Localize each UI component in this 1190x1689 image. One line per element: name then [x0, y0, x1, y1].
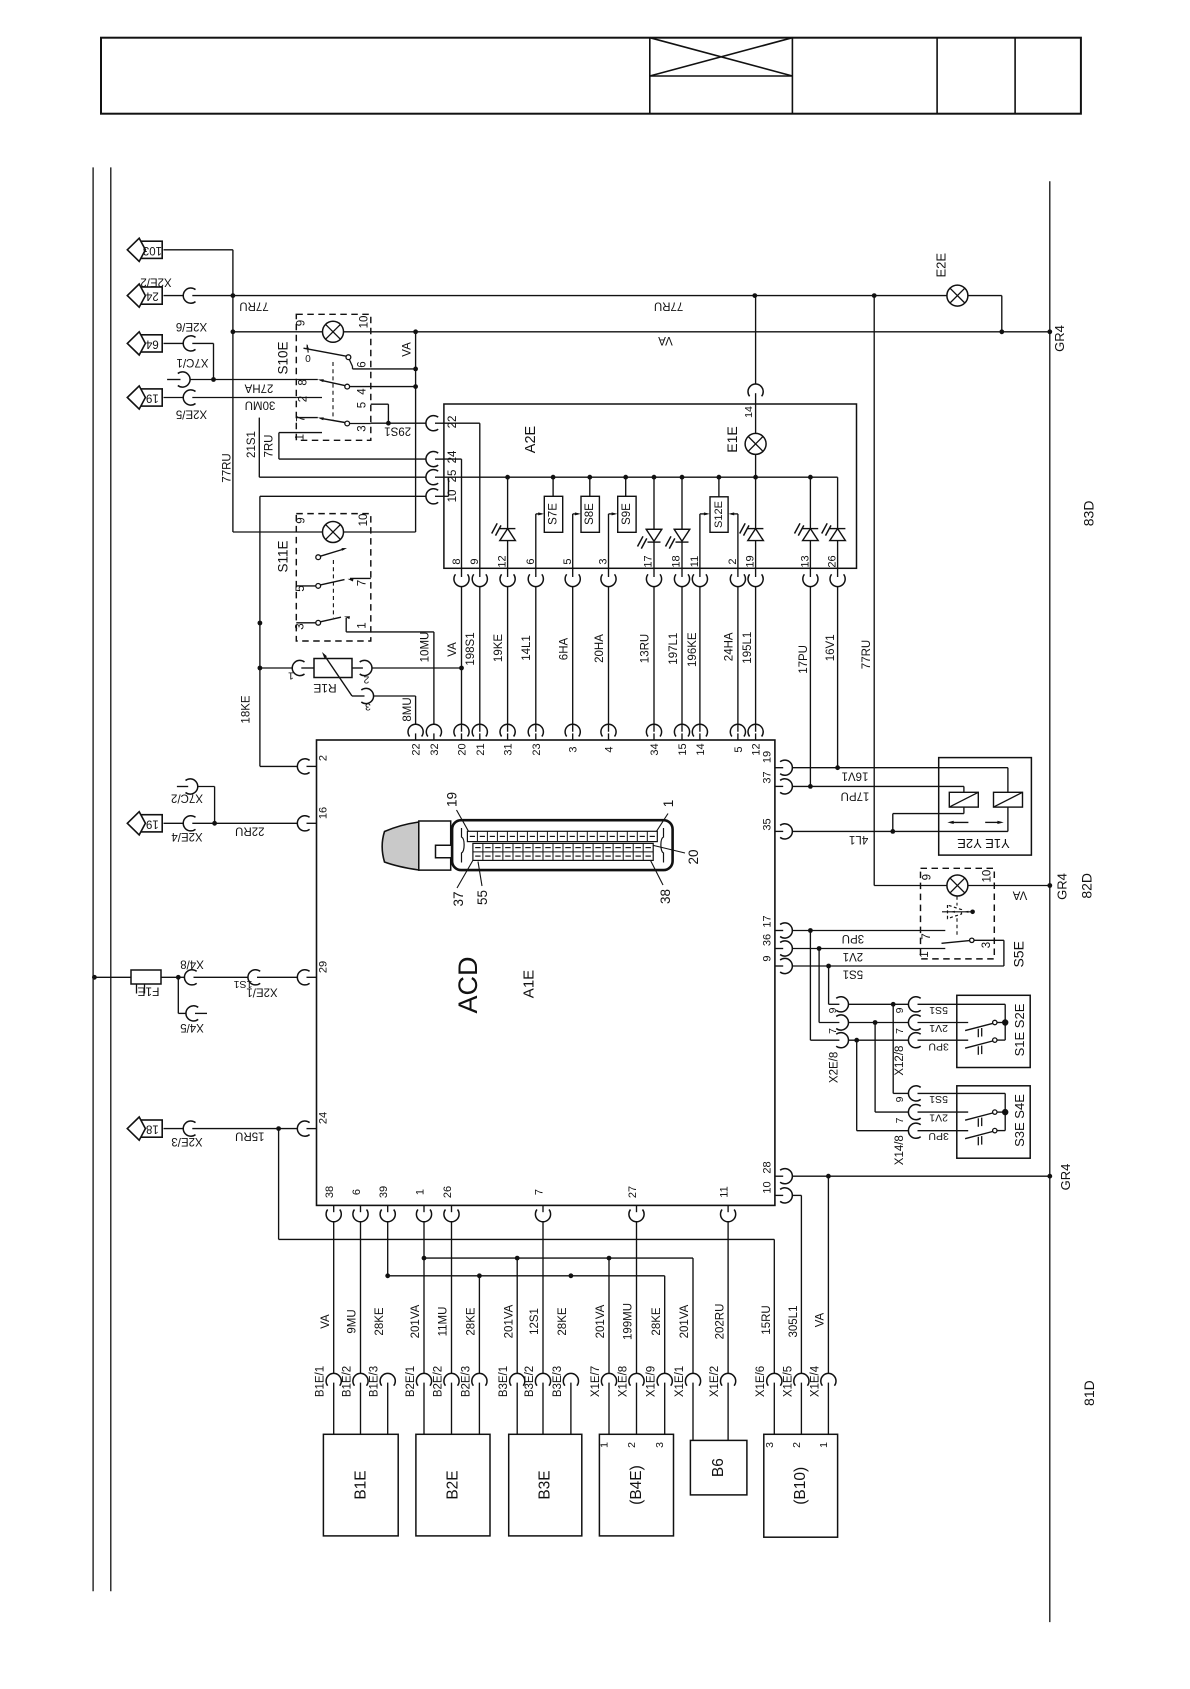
lamp E2E	[933, 253, 968, 307]
svg-text:B2E/1: B2E/1	[405, 1366, 417, 1397]
svg-text:12S1: 12S1	[529, 1308, 541, 1335]
wire VA vertical branch	[416, 329, 1053, 532]
wire 15RU to A1E pin24	[164, 1126, 298, 1141]
svg-text:X2E/5: X2E/5	[176, 408, 207, 420]
A2E bottom connectors	[454, 568, 845, 586]
svg-text:X7C/2: X7C/2	[171, 792, 203, 804]
svg-text:15RU: 15RU	[761, 1305, 773, 1334]
photodiode A2E column 26	[822, 477, 846, 568]
connector X2E/5	[176, 390, 207, 420]
svg-text:X1E/5: X1E/5	[782, 1366, 794, 1397]
svg-text:10: 10	[359, 316, 371, 329]
svg-text:13: 13	[800, 555, 812, 567]
svg-text:19: 19	[745, 555, 757, 567]
svg-text:20: 20	[457, 743, 469, 755]
svg-text:28KE: 28KE	[651, 1307, 663, 1335]
connector X2E/1	[246, 970, 297, 998]
R1E pin 3 wiper connector	[352, 688, 416, 712]
off-page arrow 64	[127, 332, 162, 355]
label GR4 middle	[1055, 873, 1070, 900]
wire 2V1 lower row	[875, 1112, 968, 1124]
svg-text:ACD: ACD	[453, 956, 483, 1013]
svg-text:16V1: 16V1	[842, 770, 869, 782]
svg-text:31: 31	[503, 743, 515, 755]
svg-text:VA: VA	[320, 1314, 332, 1329]
svg-text:4L1: 4L1	[849, 833, 868, 845]
svg-text:5S1: 5S1	[843, 967, 863, 979]
svg-text:B1E/1: B1E/1	[315, 1366, 327, 1397]
R1E pin 1 connector	[260, 660, 314, 681]
svg-text:X1E/8: X1E/8	[617, 1366, 629, 1397]
wire 2V1 A1E pin36 to S5E pin1	[793, 946, 946, 962]
svg-text:15RU: 15RU	[235, 1130, 264, 1142]
lamp E1E	[724, 426, 766, 454]
wire 2V1 row2	[819, 1022, 948, 1034]
svg-text:24: 24	[447, 450, 459, 463]
svg-text:8: 8	[451, 558, 463, 564]
svg-text:S8E: S8E	[584, 503, 596, 525]
svg-text:81D: 81D	[1081, 1380, 1097, 1406]
connector X2E/6	[176, 320, 207, 351]
connector group X2E/8	[827, 997, 848, 1083]
wire 18KE net	[241, 496, 426, 766]
svg-text:B1E/2: B1E/2	[341, 1366, 353, 1397]
title block crossed cell	[650, 38, 793, 76]
wire 195L1	[742, 587, 756, 732]
bus bar GR4 vertical	[1049, 181, 1051, 1622]
connector X2E/3	[171, 1121, 202, 1147]
svg-text:3PU: 3PU	[928, 1041, 948, 1053]
svg-text:4: 4	[604, 746, 616, 752]
svg-text:GR4: GR4	[1055, 873, 1070, 900]
connector X2E/2	[140, 276, 195, 304]
wire 29S1 S10E pin3 to A2E pin 22	[371, 421, 426, 437]
svg-text:32: 32	[429, 743, 441, 755]
wire E2E to VA line	[968, 296, 1002, 332]
S5E mechanical dashes	[956, 896, 958, 937]
svg-text:12: 12	[497, 555, 509, 567]
A1E connector drawing cable	[382, 822, 419, 870]
wire 22RU to A1E pin16	[164, 821, 298, 837]
wire 19KE	[493, 587, 508, 732]
lamp inside S5E	[947, 875, 968, 896]
svg-text:2: 2	[363, 674, 369, 686]
svg-text:X2E/1: X2E/1	[246, 986, 277, 998]
svg-text:37: 37	[451, 891, 466, 906]
wire 2V1 branch down	[819, 949, 877, 1113]
S11E switch level 2 pins 5-7	[296, 578, 371, 588]
wire 5S1 branch down	[829, 966, 896, 1093]
wire 17PU A1E pin37 to Y1E	[793, 784, 964, 802]
svg-text:38: 38	[324, 1186, 336, 1198]
svg-text:14: 14	[743, 406, 755, 418]
off-page arrow 24	[127, 284, 162, 307]
off-page arrow 103	[127, 238, 162, 261]
svg-text:19: 19	[445, 792, 460, 807]
svg-text:E2E: E2E	[933, 253, 948, 278]
svg-text:B1E: B1E	[352, 1470, 369, 1499]
wire 5S1 A1E pin9 to S5E pin3	[793, 964, 1004, 980]
off-page arrow 19	[127, 386, 162, 409]
S10E switch level 2 pins 8-4	[296, 379, 371, 389]
svg-text:17PU: 17PU	[841, 790, 870, 802]
svg-text:34: 34	[649, 743, 661, 755]
svg-text:37: 37	[762, 771, 774, 783]
svg-text:S3E S4E: S3E S4E	[1012, 1094, 1027, 1147]
sensor B6	[690, 1440, 747, 1495]
svg-text:X1E/7: X1E/7	[590, 1366, 602, 1397]
svg-text:R1E: R1E	[313, 681, 336, 695]
S10E rotary switch level 1	[304, 344, 371, 369]
svg-text:X2E/4: X2E/4	[171, 830, 203, 842]
svg-text:55: 55	[475, 890, 490, 905]
wire 30MU to S10E pin 2	[164, 398, 323, 411]
svg-text:X7C/1: X7C/1	[177, 356, 209, 368]
svg-text:20HA: 20HA	[594, 634, 606, 663]
label 82D	[1078, 873, 1094, 899]
svg-text:S10E: S10E	[276, 341, 291, 374]
wire 16V1	[825, 587, 837, 768]
svg-text:X4/5: X4/5	[180, 1021, 204, 1033]
svg-text:A1E: A1E	[521, 970, 538, 998]
A1E connector pin numbers and leaders	[445, 792, 701, 907]
wire 3PU row3	[810, 1040, 948, 1052]
svg-text:X2E/2: X2E/2	[140, 276, 171, 288]
svg-text:VA: VA	[447, 642, 459, 657]
svg-text:X12/8: X12/8	[894, 1046, 906, 1076]
svg-text:83D: 83D	[1081, 501, 1097, 527]
wire 1S1 to A1E pin29	[194, 977, 253, 990]
svg-text:38: 38	[658, 889, 673, 904]
LED A2E column 18	[666, 477, 690, 568]
wire VA from pin28 to X1E/4	[815, 1176, 829, 1373]
svg-text:S12E: S12E	[713, 501, 725, 528]
svg-text:2V1: 2V1	[929, 1112, 948, 1124]
wire 305L1 from A1E pin10	[788, 1195, 801, 1373]
svg-text:B3E/3: B3E/3	[552, 1366, 564, 1397]
svg-text:82D: 82D	[1078, 873, 1094, 899]
A2E left pin connectors	[426, 416, 459, 504]
svg-text:1: 1	[919, 951, 931, 957]
S11E rotary level 1	[316, 548, 347, 560]
svg-text:26: 26	[827, 555, 839, 567]
A1E top pin numbers	[411, 743, 763, 755]
svg-text:6: 6	[351, 1189, 363, 1195]
connector X4/5 stub	[178, 977, 207, 1033]
svg-text:2V1: 2V1	[843, 950, 863, 962]
control unit A1E box	[317, 740, 775, 1205]
wire from border to F1E	[92, 975, 181, 980]
svg-text:19KE: 19KE	[493, 634, 505, 662]
R1E pin 2 connector	[352, 660, 462, 685]
svg-text:B2E/2: B2E/2	[432, 1366, 444, 1397]
svg-text:3: 3	[357, 425, 369, 431]
svg-text:X2E/6: X2E/6	[176, 320, 207, 332]
svg-text:198S1: 198S1	[465, 632, 477, 665]
wire 15RU long run to X1E/6	[279, 1129, 775, 1374]
switch S9E	[609, 477, 637, 568]
S5E switch blade	[942, 938, 1004, 966]
wire 3PU branch down	[810, 931, 859, 1131]
svg-text:B3E: B3E	[537, 1470, 554, 1499]
svg-text:16: 16	[318, 807, 330, 819]
svg-text:10: 10	[762, 1181, 774, 1193]
A1E connector pin rows 20-55	[473, 843, 653, 860]
wire 4L1 A1E pin35	[793, 831, 1008, 845]
svg-text:9: 9	[894, 1096, 906, 1102]
control unit A2E box	[444, 404, 857, 568]
S10E switch level 3 pins 7-3	[296, 417, 371, 426]
left page border lines	[93, 167, 111, 1591]
svg-text:B2E/3: B2E/3	[460, 1366, 472, 1397]
wire 3PU lower row	[857, 1130, 969, 1142]
svg-text:24HA: 24HA	[724, 632, 736, 661]
svg-text:B2E: B2E	[444, 1470, 461, 1499]
svg-text:9: 9	[469, 558, 481, 564]
wire 77RU top	[164, 293, 947, 311]
svg-text:11: 11	[718, 1186, 730, 1197]
wire 10MU S11E pin1 to A1E pin32	[346, 632, 434, 725]
switch box S3E S4E	[957, 1086, 1030, 1158]
wire Y1E return loop	[890, 814, 964, 834]
wire VA A2E8 to A1E20	[447, 587, 464, 732]
S10E pin 5 jumper to 29S1	[371, 404, 389, 423]
svg-text:X4/8: X4/8	[180, 958, 204, 970]
off-page arrow 19 second	[127, 812, 162, 835]
switch unit S11E dashed box	[276, 514, 371, 641]
label 83D	[1081, 501, 1097, 527]
wire 20HA	[594, 587, 609, 732]
svg-text:2: 2	[626, 1442, 638, 1448]
A1E right pin connectors	[762, 751, 793, 1203]
wire VA horizontal	[233, 331, 1050, 333]
svg-text:39: 39	[378, 1186, 390, 1198]
svg-text:15: 15	[677, 743, 689, 755]
svg-text:3: 3	[598, 558, 610, 564]
svg-text:18KE: 18KE	[241, 695, 253, 723]
svg-text:9: 9	[827, 1007, 839, 1013]
svg-text:7RU: 7RU	[264, 434, 276, 457]
svg-text:B1E/3: B1E/3	[369, 1366, 381, 1397]
svg-text:77RU: 77RU	[222, 453, 234, 482]
svg-text:F1E: F1E	[137, 985, 159, 999]
svg-text:S1E S2E: S1E S2E	[1012, 1003, 1027, 1056]
svg-text:103: 103	[143, 244, 162, 256]
svg-text:11MU: 11MU	[438, 1307, 450, 1337]
svg-text:S7E: S7E	[548, 503, 560, 525]
switch S12E	[700, 477, 738, 568]
svg-text:77RU: 77RU	[654, 300, 683, 312]
svg-text:201VA: 201VA	[503, 1304, 515, 1338]
wires into S1E S2E	[918, 1004, 1006, 1040]
A1E bottom pin connectors	[326, 1205, 736, 1221]
A1E connector drawing shell	[452, 820, 672, 870]
wire 6HA	[559, 587, 573, 732]
label GR4 bottom	[1058, 1164, 1073, 1191]
S10E mechanical coupling dashes	[332, 362, 334, 420]
wire 28KE bus	[385, 1273, 664, 1373]
connector group X14/8	[894, 1086, 921, 1165]
svg-text:197L1: 197L1	[668, 633, 680, 665]
svg-text:2V1: 2V1	[929, 1022, 948, 1034]
sensor B4E	[599, 1434, 674, 1536]
svg-text:7: 7	[827, 1028, 839, 1034]
wire 16V1 A1E pin19 to Y2E	[793, 765, 1008, 792]
svg-text:VA: VA	[1012, 888, 1027, 900]
label GR4 top	[1052, 325, 1067, 352]
svg-text:X1E/2: X1E/2	[709, 1366, 721, 1397]
wire 24HA	[724, 587, 738, 732]
svg-text:X2E/8: X2E/8	[828, 1052, 840, 1083]
svg-text:VA: VA	[815, 1312, 827, 1327]
lamp inside S11E	[323, 522, 344, 543]
wire 7RU S10E pin1 to A2E pin24	[264, 433, 426, 460]
wire 14L1	[521, 587, 536, 732]
svg-text:9: 9	[762, 955, 774, 961]
svg-text:14: 14	[695, 743, 707, 755]
svg-text:3: 3	[295, 623, 307, 629]
svg-text:9: 9	[296, 320, 308, 326]
svg-text:28KE: 28KE	[466, 1307, 478, 1335]
svg-text:10: 10	[358, 514, 370, 527]
svg-text:7: 7	[533, 1189, 545, 1195]
svg-text:22: 22	[447, 416, 459, 429]
connector X7C/2	[171, 779, 215, 823]
wire 77RU vertical to S11E	[222, 453, 234, 482]
switch unit S10E dashed box	[276, 314, 371, 440]
sensor B3E	[509, 1434, 582, 1536]
bottom connector row	[315, 1365, 836, 1440]
svg-text:X1E/1: X1E/1	[674, 1366, 686, 1397]
svg-text:X1E/6: X1E/6	[755, 1366, 767, 1397]
sensor B2E	[416, 1434, 490, 1536]
svg-text:77RU: 77RU	[239, 299, 268, 311]
svg-text:E1E: E1E	[724, 426, 740, 452]
svg-text:Y1E Y2E: Y1E Y2E	[957, 836, 1010, 851]
svg-text:7: 7	[921, 933, 933, 939]
label 81D	[1081, 1380, 1097, 1406]
wire 13RU	[640, 587, 655, 732]
wire 201VA bus	[422, 1256, 693, 1374]
svg-text:196KE: 196KE	[687, 632, 699, 667]
wire 17PU	[798, 587, 810, 787]
wire A1E pin28 to GR4	[793, 1174, 1053, 1179]
svg-text:4: 4	[357, 388, 369, 395]
A1E bottom pin numbers	[324, 1186, 730, 1198]
svg-text:202RU: 202RU	[714, 1304, 726, 1340]
svg-text:6: 6	[357, 361, 369, 367]
S11E lamp wire	[233, 531, 416, 533]
wire 197L1	[668, 587, 682, 732]
coil Y1E	[949, 792, 978, 813]
svg-text:7: 7	[894, 1117, 906, 1123]
svg-text:28KE: 28KE	[374, 1307, 386, 1335]
svg-text:6HA: 6HA	[559, 637, 571, 660]
svg-text:26: 26	[442, 1186, 454, 1198]
A1E left pin connectors	[297, 755, 329, 1136]
S11E mechanical coupling dashes	[332, 560, 334, 618]
svg-text:3: 3	[764, 1442, 776, 1448]
sensor B10	[764, 1434, 838, 1537]
svg-text:5S1: 5S1	[929, 1004, 948, 1016]
svg-text:1: 1	[818, 1442, 830, 1448]
svg-text:S9E: S9E	[621, 503, 633, 525]
svg-text:VA: VA	[402, 342, 414, 357]
svg-text:7: 7	[295, 415, 307, 421]
svg-text:36: 36	[762, 934, 774, 946]
svg-text:3: 3	[981, 942, 993, 948]
svg-text:29S1: 29S1	[384, 425, 411, 437]
off-page arrow 18	[127, 1117, 162, 1140]
svg-text:5: 5	[733, 746, 745, 752]
svg-text:13RU: 13RU	[640, 634, 652, 663]
svg-text:X14/8: X14/8	[894, 1135, 906, 1165]
svg-text:9: 9	[894, 1007, 906, 1013]
switch box S1E S2E	[957, 995, 1030, 1067]
svg-text:21: 21	[475, 743, 487, 755]
svg-text:GR4: GR4	[1052, 325, 1067, 352]
svg-text:5: 5	[357, 402, 369, 408]
svg-text:11: 11	[689, 556, 701, 567]
svg-text:B3E/2: B3E/2	[524, 1366, 536, 1397]
S5E plunger symbol	[942, 905, 975, 919]
connector 14 on E1E wire	[743, 296, 763, 434]
svg-text:9: 9	[296, 517, 308, 523]
svg-text:GR4: GR4	[1058, 1164, 1073, 1191]
svg-text:21S1: 21S1	[246, 431, 258, 458]
svg-text:S5E: S5E	[1011, 941, 1027, 967]
svg-text:30MU: 30MU	[245, 398, 276, 410]
svg-text:0: 0	[305, 352, 311, 363]
svg-text:201VA: 201VA	[410, 1304, 422, 1338]
svg-text:19: 19	[146, 817, 159, 829]
svg-text:17PU: 17PU	[798, 645, 810, 674]
svg-text:2: 2	[318, 755, 330, 761]
svg-text:5S1: 5S1	[929, 1093, 948, 1105]
svg-text:A2E: A2E	[523, 425, 539, 453]
wire from arrow 103 to node	[164, 250, 233, 532]
A1E connector pin row 1-19	[467, 831, 657, 841]
svg-text:9: 9	[921, 874, 933, 880]
switch S8E	[573, 477, 600, 568]
A2E internal bus wire	[444, 475, 838, 480]
svg-text:2: 2	[298, 396, 310, 402]
svg-text:7: 7	[357, 580, 369, 586]
svg-text:201VA: 201VA	[679, 1304, 691, 1338]
svg-text:35: 35	[762, 818, 774, 830]
valve actuation arrows	[947, 821, 1003, 824]
svg-text:B6: B6	[710, 1458, 727, 1477]
svg-text:18: 18	[671, 555, 683, 567]
wire 3PU A1E pin17 to S5E pin7	[793, 928, 946, 944]
svg-text:201VA: 201VA	[595, 1304, 607, 1338]
svg-text:14L1: 14L1	[521, 635, 533, 661]
svg-text:27HA: 27HA	[244, 381, 273, 393]
coil Y2E	[994, 792, 1023, 831]
svg-text:23: 23	[531, 743, 543, 755]
svg-text:27: 27	[627, 1186, 639, 1198]
svg-text:3: 3	[654, 1442, 666, 1448]
svg-text:16V1: 16V1	[825, 634, 837, 661]
svg-text:1: 1	[661, 800, 676, 808]
connector group X12/8	[894, 997, 921, 1076]
A2E bottom pin numbers	[451, 555, 839, 567]
S11E pin labels	[295, 514, 371, 630]
S10E pin labels	[295, 316, 371, 441]
svg-text:VA: VA	[658, 334, 673, 346]
svg-text:64: 64	[145, 337, 158, 349]
svg-text:199MU: 199MU	[623, 1303, 635, 1340]
